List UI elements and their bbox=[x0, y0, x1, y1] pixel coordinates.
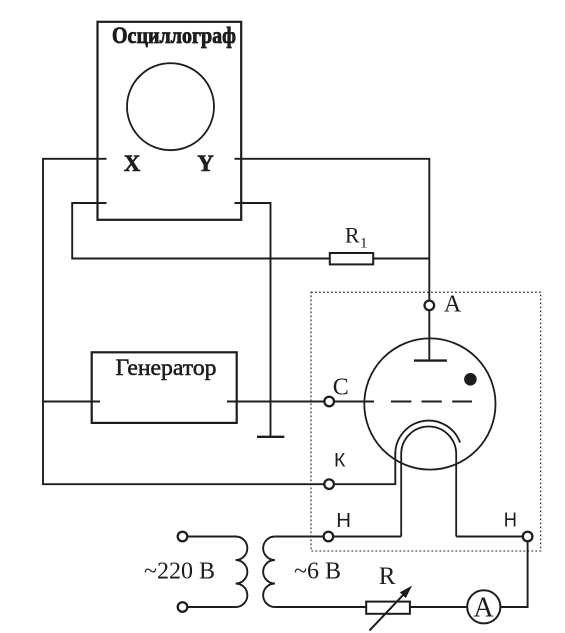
terminal 220V top bbox=[178, 532, 188, 542]
wire Y output right and down to node A bbox=[235, 159, 430, 301]
anode plate bbox=[414, 359, 447, 361]
svg-text:Осциллограф: Осциллограф bbox=[112, 23, 236, 48]
svg-text:Н: Н bbox=[504, 509, 517, 531]
svg-text:R1: R1 bbox=[345, 223, 368, 252]
rheostat R bbox=[366, 602, 410, 614]
wire secondary top to node H left bbox=[275, 536, 324, 538]
wire node H right down to ammeter bbox=[500, 541, 528, 607]
wire node A to anode bbox=[428, 310, 430, 359]
wire X output to left rail down to node K bbox=[43, 159, 324, 484]
wire node H left to heater bbox=[333, 536, 401, 538]
dotted enclosure (tube compartment) bbox=[311, 292, 541, 551]
wire heater to node H right bbox=[456, 536, 523, 538]
svg-text:А: А bbox=[473, 592, 494, 623]
transformer T1 primary coil bbox=[187, 537, 247, 608]
transformer T1 secondary coil bbox=[263, 537, 275, 608]
grid dashes bbox=[391, 401, 472, 403]
svg-text:А: А bbox=[444, 292, 462, 318]
terminal 220V bottom bbox=[178, 602, 188, 612]
cathode arc bbox=[395, 421, 460, 454]
node H left bbox=[324, 532, 334, 542]
oscilloscope box bbox=[98, 22, 242, 220]
wire oscilloscope lower-right terminal down to ground bbox=[235, 203, 271, 436]
svg-text:~6 В: ~6 В bbox=[294, 559, 341, 585]
cathode lead to K wire bbox=[394, 452, 396, 484]
svg-text:Н: Н bbox=[336, 510, 351, 532]
svg-text:X: X bbox=[124, 151, 141, 176]
getter dot bbox=[464, 373, 477, 386]
wire resistor R1 to anode rail junction bbox=[373, 258, 429, 260]
wire generator output to node C bbox=[227, 401, 324, 403]
svg-text:К: К bbox=[334, 450, 346, 472]
resistor R1 bbox=[330, 253, 373, 264]
heater filament bbox=[401, 427, 456, 537]
rheostat arrow bbox=[370, 594, 405, 631]
generator box bbox=[92, 352, 237, 423]
svg-text:Y: Y bbox=[197, 151, 214, 176]
node H right bbox=[523, 532, 533, 542]
svg-text:~220 В: ~220 В bbox=[144, 559, 215, 585]
svg-text:Генератор: Генератор bbox=[116, 355, 217, 380]
wire ammeter to rheostat bbox=[410, 606, 467, 608]
node C bbox=[324, 397, 334, 407]
wire node K to cathode lead bbox=[334, 483, 396, 485]
wire oscilloscope lower-left terminal to resistor R1 bbox=[72, 203, 330, 259]
node K bbox=[324, 479, 334, 489]
wire rheostat to secondary bottom bbox=[275, 606, 366, 608]
svg-text:R: R bbox=[379, 563, 396, 590]
tube V1 envelope bbox=[364, 338, 495, 469]
ground bbox=[257, 436, 284, 438]
svg-text:С: С bbox=[333, 374, 349, 400]
node A bbox=[425, 301, 435, 311]
oscilloscope screen bbox=[127, 63, 214, 150]
grid (dashed) lead from node C bbox=[334, 401, 374, 403]
wire left rail to generator input bbox=[43, 401, 100, 403]
ammeter A bbox=[467, 590, 500, 623]
